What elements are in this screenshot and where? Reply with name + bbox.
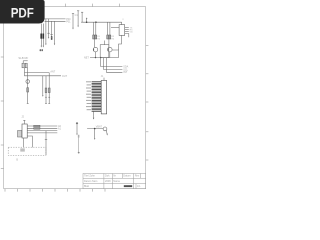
svg-text:ANT: ANT — [50, 71, 55, 74]
svg-text:Datum Nam: Datum Nam — [84, 180, 97, 183]
connector J1 body — [101, 81, 107, 114]
resistor pair at Q2 — [107, 35, 109, 39]
svg-text:NET: NET — [84, 57, 89, 60]
power pin VCC2 — [81, 12, 83, 22]
svg-text:Titel Zchn: Titel Zchn — [84, 175, 95, 178]
svg-text:Datum: Datum — [123, 175, 130, 178]
transistor Q3 drop — [27, 68, 29, 104]
resistor R? vertical pair under badge — [40, 24, 42, 47]
svg-text:Name: Name — [113, 180, 120, 183]
svg-text:VBAT: VBAT — [96, 125, 103, 128]
crystal X1 — [22, 63, 24, 68]
connector J1 pins — [92, 82, 102, 111]
wire: SLB bus upper — [25, 68, 50, 73]
wire: Q2 collector to U2 — [112, 50, 118, 58]
ground below J1 — [93, 111, 95, 118]
power pin P? — [72, 14, 74, 29]
ground arrows SLB — [42, 95, 43, 97]
capacitor ticks — [47, 32, 49, 34]
ground arrows cluster A — [41, 46, 42, 48]
svg-text:2008: 2008 — [105, 180, 111, 183]
svg-text:INT: INT — [123, 71, 127, 74]
svg-text:OUT: OUT — [62, 75, 68, 78]
pin stub U2 left — [111, 26, 119, 28]
net label texts — [16, 14, 133, 162]
J2 side box — [18, 131, 22, 138]
wire: three nets to right labels — [100, 58, 102, 67]
title block — [83, 174, 146, 189]
junction — [95, 21, 97, 23]
wire drops from labelled nets — [45, 19, 47, 44]
svg-text:Nr: Nr — [113, 175, 116, 178]
svg-text:PDF: PDF — [11, 4, 35, 20]
svg-text:Blatt: Blatt — [84, 185, 89, 188]
capacitor C? standalone — [78, 135, 80, 154]
svg-text:GD: GD — [130, 31, 134, 33]
frame zone tick marks — [1, 4, 149, 192]
schematic drawing — [40, 11, 129, 114]
power pin VCC1 — [77, 11, 79, 26]
svg-text:Rev: Rev — [135, 175, 140, 178]
J2 pin nets — [27, 125, 57, 127]
IC U3 body — [100, 45, 109, 58]
op-amp U2 box — [119, 25, 125, 36]
svg-text:P01: P01 — [66, 20, 71, 23]
connector J1 pin labels — [86, 81, 91, 110]
resistor network on J2 nets — [34, 125, 40, 127]
fuse F1 loop — [103, 127, 107, 131]
wire: J2 to module — [22, 138, 24, 147]
transistor Q1 — [94, 39, 96, 47]
PDF badge — [0, 0, 45, 24]
power pin stub — [86, 19, 88, 22]
wire: net with junction below J1 — [87, 127, 107, 139]
battery B1 inside module — [20, 148, 25, 151]
transistor Q2 — [108, 39, 110, 47]
resistor value labels — [97, 36, 115, 40]
antenna E1 — [76, 122, 78, 134]
wire: SLB bus lower — [25, 73, 62, 76]
battery module dashed outline — [8, 147, 46, 155]
pin stubs U2 right — [125, 27, 129, 29]
sheet frame border — [4, 7, 146, 189]
svg-text:Dok: Dok — [105, 175, 110, 178]
svg-text:SLB RF: SLB RF — [18, 56, 28, 60]
junction — [86, 21, 88, 23]
wire: emitter bus under Q1 Q2 — [90, 57, 119, 59]
wire: net to module box — [45, 131, 47, 156]
resistor pair at Q1 — [93, 35, 95, 39]
wire drops with resistors — [42, 76, 44, 96]
title block text — [84, 175, 141, 189]
wire drops to Q1 gate resistors — [93, 22, 95, 35]
wire: top supply rail — [81, 21, 122, 23]
svg-text:1/1: 1/1 — [137, 185, 141, 188]
wire: labelled nets right of PDF badge — [45, 18, 66, 20]
connector J2 — [18, 120, 58, 155]
